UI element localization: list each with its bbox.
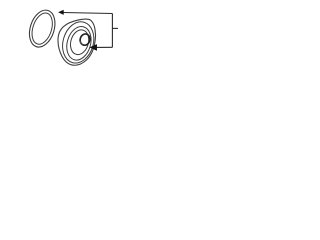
arrow 1	[59, 10, 64, 14]
arrow 2	[90, 45, 96, 51]
bearing outer contour	[58, 19, 96, 65]
ring E3	[63, 24, 95, 63]
inner hub arc	[81, 41, 83, 45]
background	[0, 0, 150, 72]
o-ring inner	[28, 10, 56, 46]
o-ring outer	[25, 7, 59, 50]
bore ring (bold)	[79, 33, 91, 47]
ring E4	[68, 28, 92, 57]
callout bottom line	[96, 46, 113, 48]
callout tick	[112, 27, 118, 29]
ring E2	[58, 18, 99, 67]
callout top line	[63, 13, 112, 14]
callout vertical line	[111, 14, 113, 48]
